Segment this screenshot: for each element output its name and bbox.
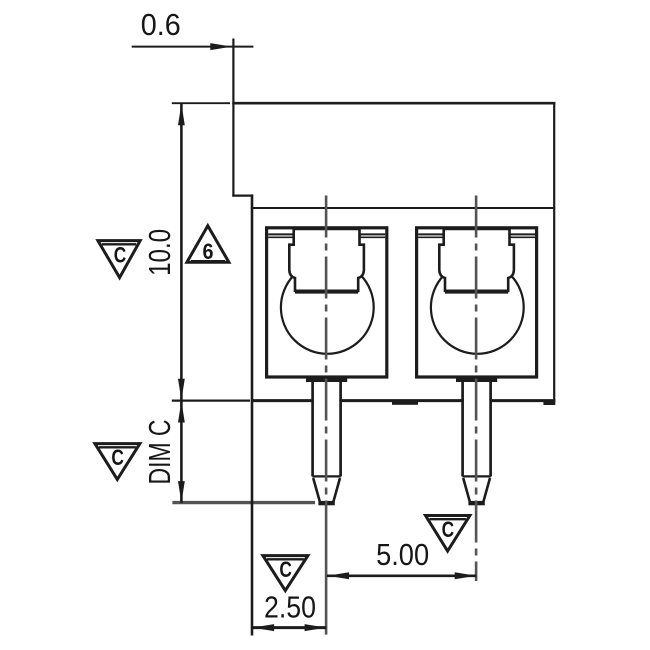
terminal box 1 outline xyxy=(267,228,387,377)
terminal box 2 outline xyxy=(417,228,537,377)
pin 1 body xyxy=(314,379,340,476)
dimension 2.50 line xyxy=(252,626,326,629)
dimension DIM C line xyxy=(180,401,183,503)
clamp plate 1 xyxy=(295,291,358,294)
housing body left edge / 2.50 extension line xyxy=(251,194,254,635)
wire clamp 2 xyxy=(439,229,514,291)
svg-text:C: C xyxy=(442,517,455,542)
wire clamp 1 xyxy=(289,229,364,291)
dimension 0.6 arrow xyxy=(210,43,232,50)
svg-text:DIM C: DIM C xyxy=(142,420,177,485)
screw circle 2 xyxy=(431,261,524,354)
housing body right edge xyxy=(553,102,555,402)
datum triangle C above 2.50 xyxy=(263,556,308,591)
svg-text:0.6: 0.6 xyxy=(141,7,181,42)
dimension 0.6 line xyxy=(132,46,254,48)
lip lines 1 xyxy=(268,233,295,235)
housing body top edge xyxy=(232,102,555,105)
svg-text:C: C xyxy=(114,243,127,268)
datum triangle C upper left xyxy=(98,241,140,278)
clamp plate 2 xyxy=(445,291,508,294)
dimension 10.0 line xyxy=(180,103,183,400)
lip lines 2 xyxy=(418,233,445,235)
pin 2 seat xyxy=(456,377,497,382)
pin 1 tip xyxy=(312,475,341,477)
flange bottom step xyxy=(232,195,253,197)
svg-text:10.0: 10.0 xyxy=(142,229,177,276)
screw circle 1 xyxy=(281,261,374,354)
housing body bottom edge xyxy=(251,399,555,402)
dimension 5.00 line xyxy=(327,574,476,577)
right mounting foot xyxy=(543,400,555,405)
tolerance triangle 6 xyxy=(187,226,229,264)
dimension 10.0 bottom extension xyxy=(172,400,250,402)
centerline pin 1 xyxy=(325,196,328,541)
centerline pin 2 xyxy=(475,196,478,582)
pin 1 seat xyxy=(306,377,347,382)
svg-text:C: C xyxy=(111,445,124,470)
body separator line xyxy=(251,207,554,209)
svg-text:2.50: 2.50 xyxy=(264,590,316,625)
datum triangle C near 5.00 xyxy=(426,516,470,552)
grey extension line DIM C bottom xyxy=(172,501,315,504)
pin 2 body xyxy=(464,379,490,476)
pin 2 tip xyxy=(462,475,491,477)
middle mounting foot xyxy=(392,400,418,405)
svg-text:5.00: 5.00 xyxy=(376,537,429,572)
dimension 10.0 top extension xyxy=(172,102,230,104)
svg-text:6: 6 xyxy=(203,239,214,264)
datum triangle C mid left xyxy=(95,444,140,480)
flange left edge / 0.6 extension line xyxy=(232,39,234,197)
svg-text:C: C xyxy=(279,557,292,582)
